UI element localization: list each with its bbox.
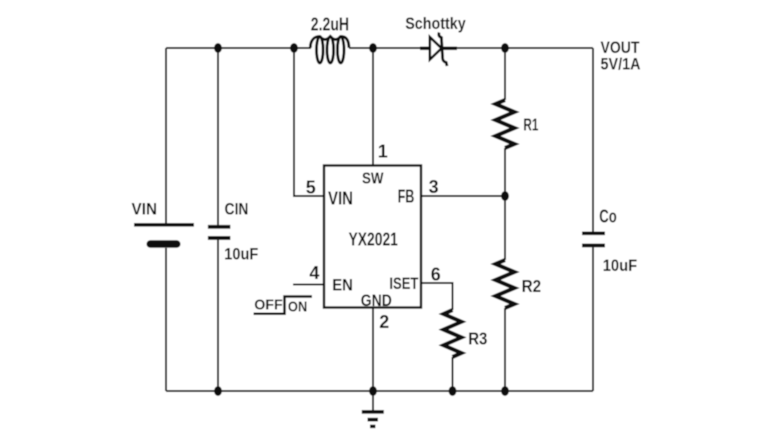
svg-text:2: 2: [379, 312, 389, 332]
svg-text:EN: EN: [332, 276, 353, 295]
svg-text:CIN: CIN: [225, 199, 249, 218]
svg-text:6: 6: [431, 265, 441, 285]
svg-text:5: 5: [306, 178, 316, 198]
svg-text:10uF: 10uF: [224, 244, 258, 263]
svg-text:2.2uH: 2.2uH: [311, 14, 349, 34]
svg-text:ISET: ISET: [389, 274, 418, 293]
svg-text:5V/1A: 5V/1A: [601, 55, 641, 74]
svg-text:VIN: VIN: [132, 199, 158, 218]
svg-text:ON: ON: [288, 299, 307, 316]
svg-text:4: 4: [309, 263, 319, 283]
svg-text:3: 3: [429, 177, 439, 197]
svg-text:R1: R1: [523, 115, 538, 135]
svg-text:GND: GND: [361, 291, 392, 310]
svg-text:R3: R3: [468, 328, 487, 348]
svg-text:1: 1: [378, 142, 388, 162]
svg-text:SW: SW: [362, 171, 384, 188]
svg-text:Schottky: Schottky: [405, 14, 466, 33]
svg-text:OFF: OFF: [254, 296, 283, 313]
svg-text:VIN: VIN: [328, 188, 353, 208]
svg-text:R2: R2: [522, 276, 542, 296]
svg-text:10uF: 10uF: [603, 256, 638, 275]
svg-text:Co: Co: [599, 206, 617, 226]
svg-text:FB: FB: [398, 186, 415, 206]
svg-text:YX2021: YX2021: [349, 229, 398, 249]
